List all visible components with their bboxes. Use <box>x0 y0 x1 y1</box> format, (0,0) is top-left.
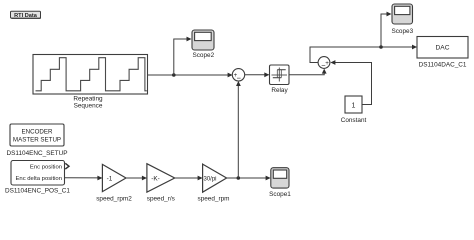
port 1 chevron (Enc position, unconnected) <box>65 163 69 169</box>
svg-text:30/pi: 30/pi <box>203 176 216 182</box>
svg-text:1: 1 <box>352 102 356 109</box>
junction dot A <box>172 73 176 77</box>
wire: gain3 to Scope1 <box>227 176 271 181</box>
junction dot C <box>237 176 241 180</box>
svg-text:−: − <box>237 74 242 83</box>
wire: junction A up to Scope2 <box>174 37 192 75</box>
svg-text:speed_rpm: speed_rpm <box>198 196 230 203</box>
scope Scope2 <box>192 30 215 59</box>
scope Scope1 <box>269 168 291 198</box>
gain speed_rpm <box>198 164 230 202</box>
svg-text:Enc delta position: Enc delta position <box>15 176 62 182</box>
encoder position block DS1104ENC_POS_C1 <box>5 161 70 195</box>
encoder master setup block <box>7 124 68 157</box>
svg-text:Scope2: Scope2 <box>192 52 214 59</box>
svg-text:speed_rpm2: speed_rpm2 <box>96 196 132 203</box>
staircase waveform <box>36 58 147 91</box>
svg-text:DS1104DAC_C1: DS1104DAC_C1 <box>419 62 467 69</box>
wire: repeating sequence to sum1 <box>148 73 233 78</box>
svg-text:DS1104ENC_SETUP: DS1104ENC_SETUP <box>7 150 68 157</box>
junction dot B <box>379 45 383 49</box>
wire: gain2 to gain3 <box>175 176 203 181</box>
wire: gain1 to gain2 <box>126 176 147 181</box>
gain speed_rpm2 <box>96 164 132 202</box>
constant block <box>341 96 367 124</box>
svg-text:+: + <box>325 60 329 67</box>
sum block S2 <box>318 57 330 71</box>
svg-text:Constant: Constant <box>341 117 367 124</box>
sum block S1 <box>232 69 244 83</box>
svg-text:-K-: -K- <box>151 175 160 182</box>
wire: constant to sum2 right input <box>330 60 371 104</box>
svg-text:-1: -1 <box>107 175 113 182</box>
repeating sequence block <box>33 55 148 110</box>
relay block <box>270 65 290 94</box>
wire: junction C up to sum1 bottom <box>236 81 241 178</box>
DAC block DS1104DAC_C1 <box>417 37 468 69</box>
RTI Data button <box>11 11 42 19</box>
scope Scope3 <box>391 4 413 35</box>
gain speed_r/s <box>147 164 175 203</box>
svg-text:Enc position: Enc position <box>30 164 62 170</box>
wire: enc pos port2 to gain speed_rpm2 <box>65 176 103 181</box>
svg-text:Sequence: Sequence <box>74 103 103 110</box>
svg-text:Scope1: Scope1 <box>269 191 291 198</box>
svg-text:Scope3: Scope3 <box>391 28 413 35</box>
wire: junction B up to Scope3 <box>381 12 392 47</box>
svg-text:MASTER SETUP: MASTER SETUP <box>13 137 61 144</box>
wire: sum2 output left, up, right to DAC <box>310 45 417 63</box>
svg-text:Relay: Relay <box>271 87 288 94</box>
wire: relay to sum2 (right then up) <box>289 69 327 75</box>
svg-text:speed_r/s: speed_r/s <box>147 196 175 203</box>
svg-text:ENCODER: ENCODER <box>22 129 53 136</box>
svg-text:RTI Data: RTI Data <box>14 13 38 19</box>
svg-text:DAC: DAC <box>436 45 450 52</box>
svg-text:DS1104ENC_POS_C1: DS1104ENC_POS_C1 <box>5 188 70 195</box>
svg-text:−: − <box>321 61 326 70</box>
wire: sum1 to relay <box>245 72 270 77</box>
svg-text:Repeating: Repeating <box>73 96 103 103</box>
